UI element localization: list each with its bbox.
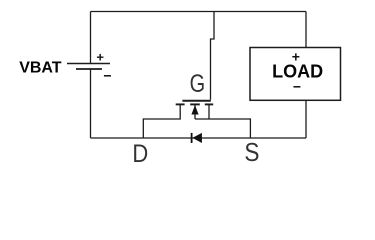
svg-text:G: G [190, 70, 205, 97]
battery VBAT negative plate [76, 68, 102, 70]
mosfet Q1 gate bar [182, 100, 210, 102]
wire bottom rail [91, 137, 307, 139]
svg-text:VBAT: VBAT [19, 60, 62, 77]
wire battery bottom lead [90, 69, 92, 138]
mosfet Q1 drain channel segment [176, 103, 185, 105]
mosfet Q1 source lead [208, 104, 210, 119]
body diode triangle [192, 133, 202, 143]
wire load bottom lead [305, 100, 307, 138]
wire gate lead from top rail [211, 12, 215, 100]
mosfet Q1 body lead with arrow [194, 104, 196, 119]
mosfet Q1 source channel segment [205, 103, 213, 105]
mosfet Q1 body arrow [191, 105, 198, 114]
wire source horizontal [195, 119, 250, 138]
svg-text:D: D [132, 140, 148, 168]
mosfet Q1 body channel segment [190, 103, 200, 105]
svg-text:+: + [96, 49, 104, 64]
mosfet Q1 drain lead [143, 104, 180, 138]
wire top rail [91, 11, 307, 13]
battery VBAT positive plate [67, 63, 110, 65]
body diode cathode bar [191, 133, 193, 143]
wire battery top lead [90, 12, 92, 64]
svg-text:−: − [293, 79, 301, 95]
svg-text:S: S [244, 138, 259, 167]
svg-text:−: − [103, 68, 111, 84]
load box [250, 48, 341, 101]
wire load top lead [305, 12, 307, 48]
